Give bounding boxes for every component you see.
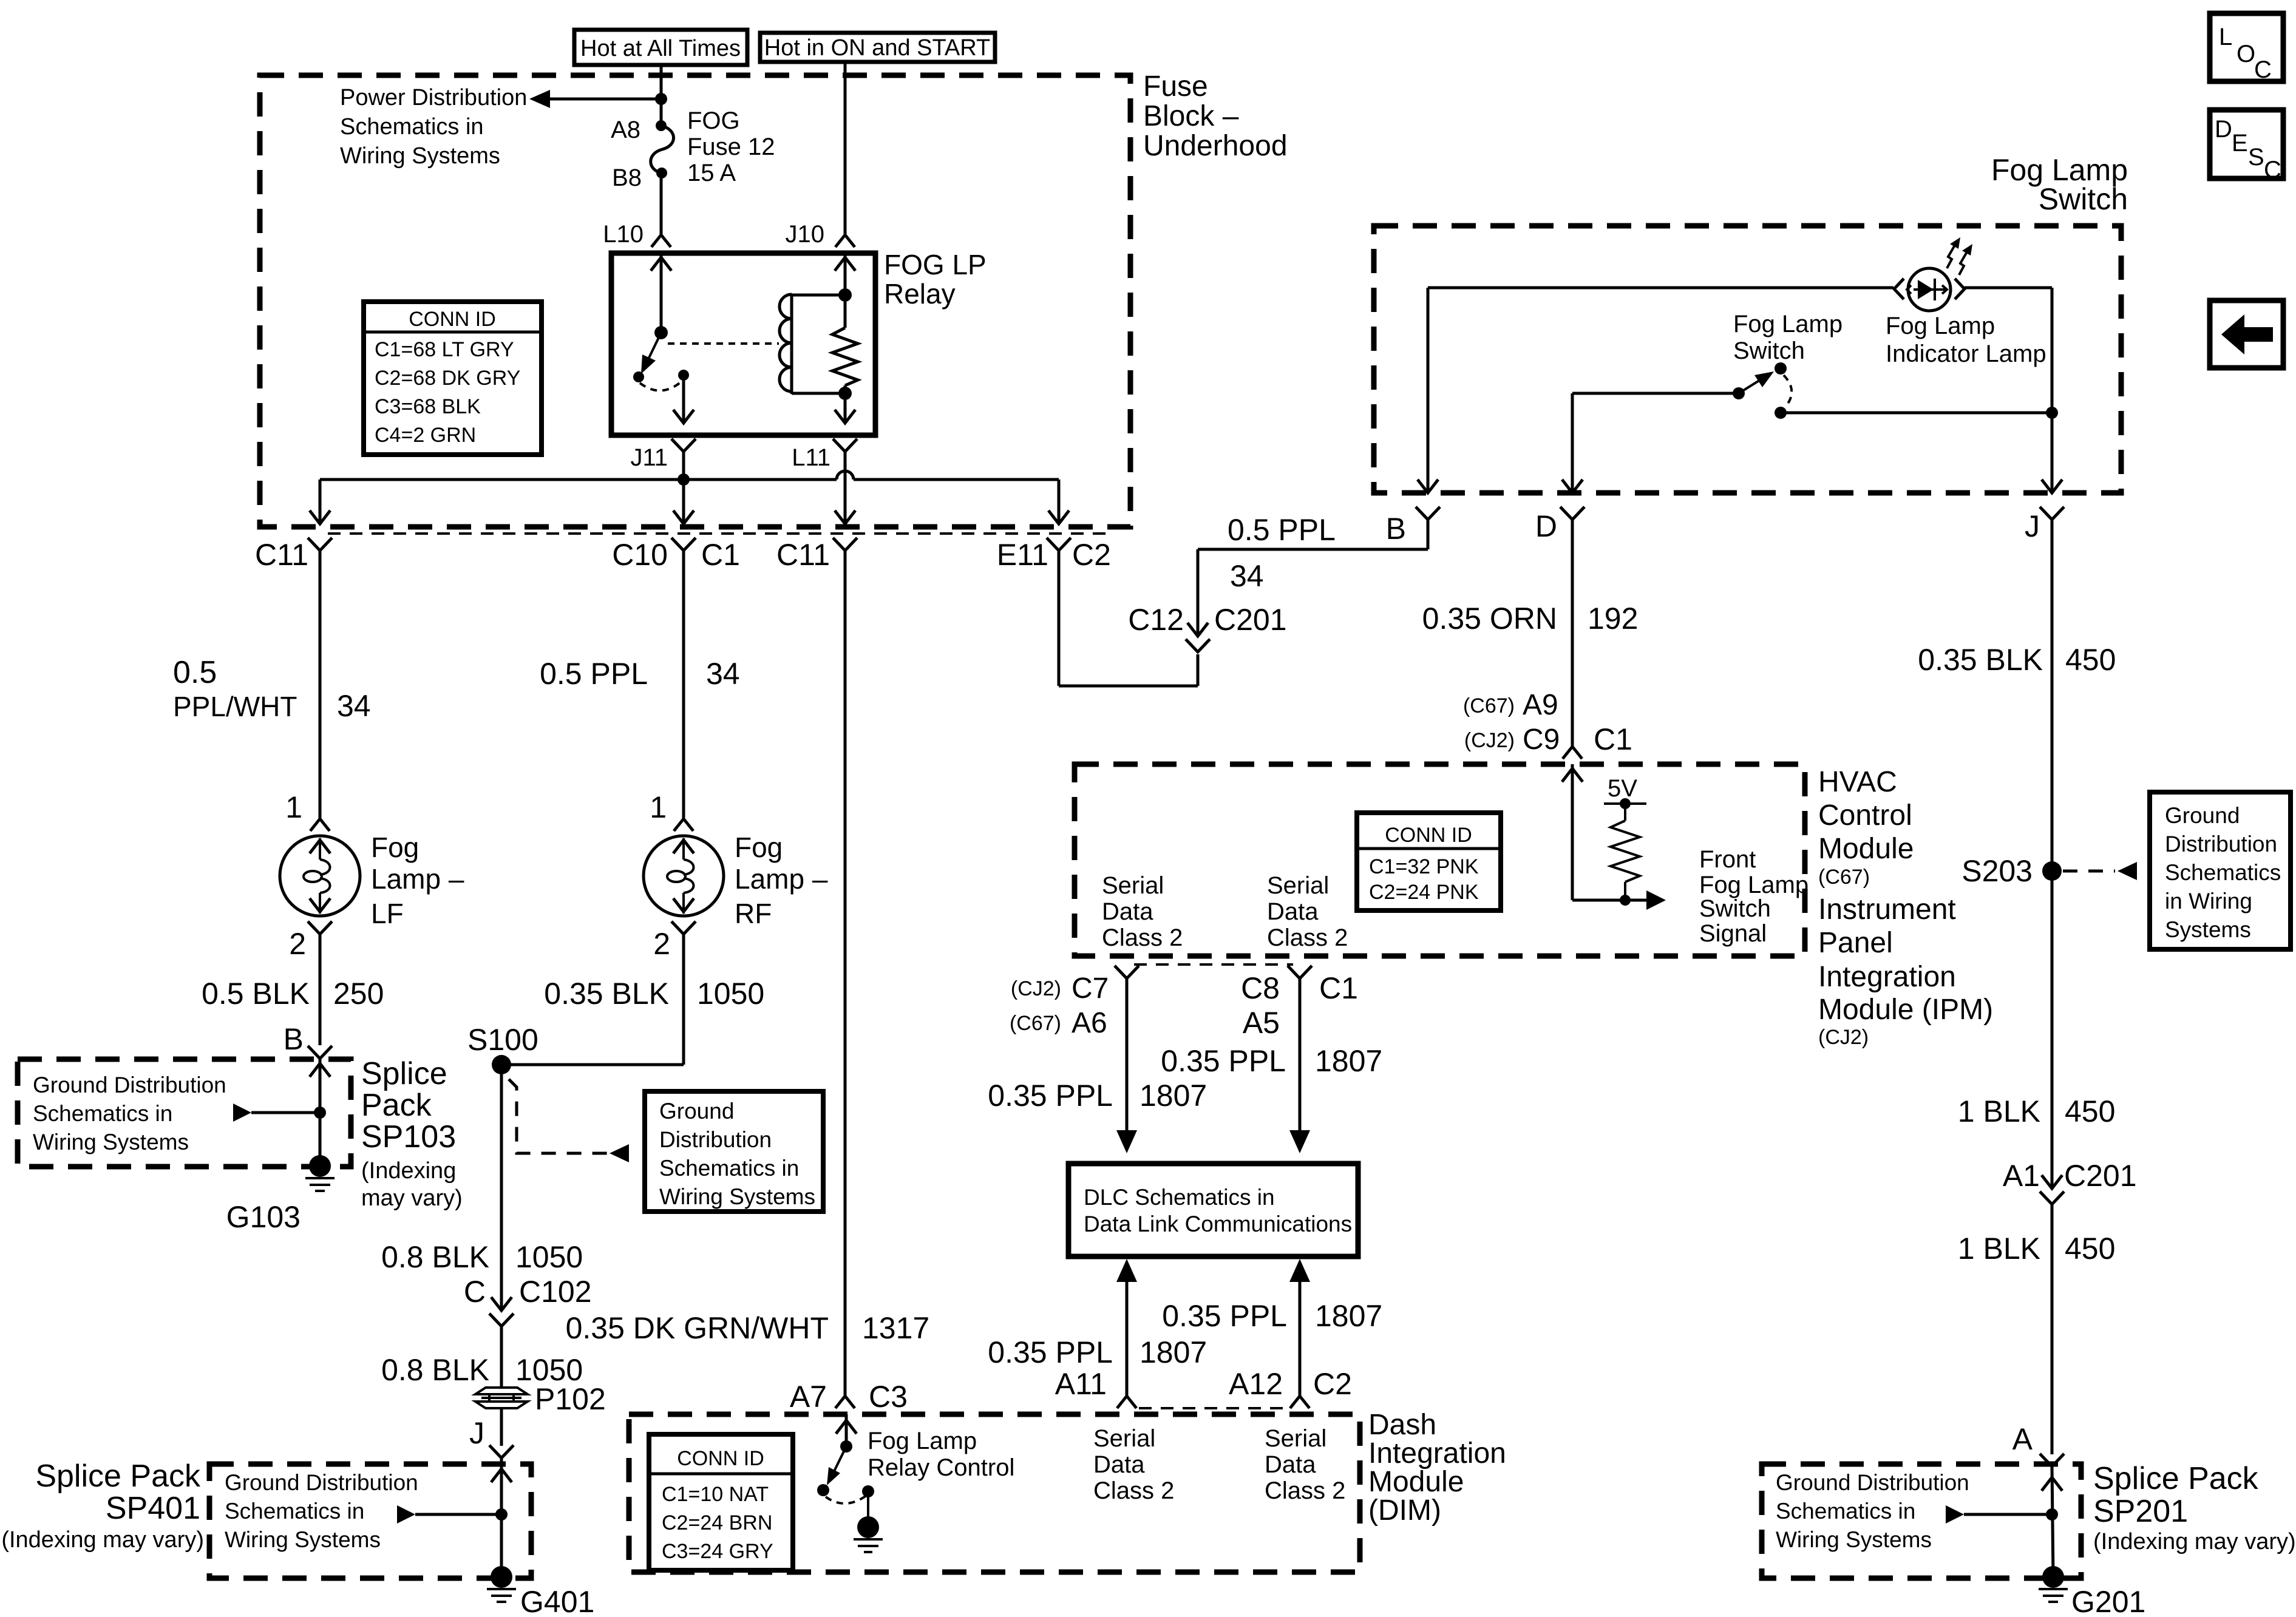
svg-text:C1=10 NAT: C1=10 NAT [662,1483,769,1506]
connector J11 female half [671,439,696,480]
svg-text:C11: C11 [776,538,830,572]
arrows out of DLC box from DIM [1116,1259,1137,1396]
wire 0.35 PPL 1807 (lower left) [988,1335,1207,1369]
svg-text:(C67): (C67) [1010,1012,1061,1035]
output bus wire right with hop over L11 [684,471,1059,524]
svg-text:C3: C3 [869,1380,908,1414]
dash integration module dashed box [629,1414,1360,1572]
connector B female below switch [1416,507,1440,520]
note Ground Distribution Schematics in Wiring Systems (SP201) [1776,1470,1969,1552]
svg-text:C: C [2264,157,2281,183]
junction node SP201 [2046,1508,2058,1520]
svg-text:1807: 1807 [1140,1079,1207,1113]
wire 0.5 BLK 250 LF ground [202,947,384,1045]
fog lamp switch dashed box [1374,226,2121,493]
svg-text:(CJ2): (CJ2) [1818,1026,1869,1049]
svg-text:1807: 1807 [1315,1299,1382,1333]
pin label A at SP201 [2012,1422,2033,1456]
svg-text:L: L [2219,24,2232,50]
svg-text:C1: C1 [701,538,740,572]
pin 1 label LF [285,790,302,824]
label Fog Lamp - RF [735,832,828,929]
svg-text:P102: P102 [535,1382,606,1416]
svg-text:C2: C2 [1072,538,1111,572]
relay N.O. contact [633,371,644,382]
wire 0.35 BLK 450 labels [1918,643,2116,677]
pin labels (C67) A9 / (CJ2) C9 / C1 [1463,689,1558,721]
svg-text:0.35 PPL: 0.35 PPL [988,1079,1113,1113]
svg-text:Serial: Serial [1265,1425,1326,1452]
svg-text:C12: C12 [1128,603,1184,637]
DIM internal ground [854,1491,883,1552]
svg-text:Splice Pack: Splice Pack [2093,1461,2259,1496]
connector C10 female [671,538,696,566]
svg-text:Serial: Serial [1093,1425,1155,1452]
arrow to power distribution schematics [529,90,661,108]
svg-text:450: 450 [2065,1094,2115,1128]
svg-text:Data: Data [1265,1451,1316,1478]
svg-text:C4=2 GRN: C4=2 GRN [375,424,476,447]
svg-text:Data: Data [1267,898,1319,925]
wire from E11 down and right to C201 [1059,566,1198,686]
svg-text:Front: Front [1699,846,1756,873]
switch throw dashed arc [1784,375,1792,407]
svg-text:C1=68 LT GRY: C1=68 LT GRY [375,338,514,361]
svg-text:192: 192 [1588,602,1638,636]
svg-text:(Indexing: (Indexing [361,1158,456,1184]
svg-text:0.35 BLK: 0.35 BLK [1918,643,2043,677]
svg-text:Ground: Ground [2165,803,2240,828]
HVAC internal signal wire [1562,764,1648,900]
svg-text:34: 34 [706,657,740,691]
svg-text:C2=24 BRN: C2=24 BRN [662,1511,772,1534]
svg-text:5V: 5V [1608,775,1637,802]
svg-text:1807: 1807 [1140,1335,1207,1369]
connector J female at SP401 [489,1445,514,1577]
wire 0.35 ORN 192 labels [1422,602,1639,636]
svg-text:C3=24 GRY: C3=24 GRY [662,1540,773,1563]
label Fog Lamp Relay Control [868,1428,1014,1481]
svg-text:A8: A8 [611,117,640,143]
svg-text:DLC Schematics in: DLC Schematics in [1084,1185,1275,1210]
svg-text:0.35 PPL: 0.35 PPL [988,1335,1113,1369]
inline connector C102 pin C [489,1297,514,1388]
switch D leg wire [1572,393,1739,493]
svg-text:Schematics in: Schematics in [1776,1499,1915,1524]
svg-text:Wiring Systems: Wiring Systems [33,1130,189,1154]
ground distribution schematics reference box (S100) [645,1091,823,1212]
switch pivot node [1733,387,1745,399]
svg-text:1050: 1050 [697,977,764,1011]
splice pack SP201 dashed box [1762,1464,2081,1578]
relay switch output contact [678,370,689,381]
label Splice Pack SP103 (Indexing may vary) [361,1056,463,1211]
svg-text:A1: A1 [2003,1159,2040,1193]
svg-text:A6: A6 [1072,1007,1107,1039]
splice node S100 [492,1055,511,1074]
svg-text:Hot in ON and START: Hot in ON and START [764,35,990,61]
pin label B at SP103 [284,1022,304,1056]
svg-text:0.8 BLK: 0.8 BLK [381,1353,489,1387]
labels C and C102 [464,1275,592,1309]
label Serial Data Class 2 (DIM left) [1093,1425,1174,1504]
CONN ID table for fuse block [364,302,542,455]
svg-text:C201: C201 [2064,1159,2137,1193]
svg-text:0.5 PPL: 0.5 PPL [1228,513,1336,547]
connector A female at SP201 [2040,1454,2064,1577]
relay control driver wire inside DIM [836,1414,857,1446]
connector D female below switch [1560,507,1584,747]
feeder arrow into splice SP103 [233,1103,320,1122]
wire 0.35 PPL 1807 (lower right) [1162,1299,1382,1333]
relay control switch arm [827,1446,846,1485]
svg-text:Splice Pack: Splice Pack [35,1459,201,1494]
svg-text:C2=24 PNK: C2=24 PNK [1369,881,1479,904]
svg-text:(C67): (C67) [1818,866,1870,889]
label HVAC Control Module / IPM [1818,766,1993,1049]
svg-text:Ground: Ground [659,1099,734,1124]
output bus wire left to C11 [320,480,684,524]
svg-text:C8: C8 [1241,971,1280,1005]
svg-text:Power Distribution: Power Distribution [340,85,527,110]
label G401 [520,1585,594,1617]
svg-text:(DIM): (DIM) [1368,1494,1441,1527]
inline connector C201 pin A1 [2040,1175,2064,1454]
svg-text:(CJ2): (CJ2) [1464,729,1515,752]
label S100 [467,1023,538,1057]
svg-text:Ground Distribution: Ground Distribution [225,1470,418,1495]
svg-text:Distribution: Distribution [2165,832,2277,856]
connector B female at SP103 [308,1046,332,1059]
lamp feed wire to indicator [1428,286,1894,290]
svg-text:Block –: Block – [1143,100,1239,132]
relay control right contact [862,1485,874,1497]
svg-text:O: O [2237,41,2255,67]
pin labels C11 C10 C1 C11 E11 C2 [255,538,308,572]
relay switch arm [641,333,661,374]
wire 0.8 BLK 1050 from S100 to C102 [381,1065,583,1310]
svg-text:E: E [2232,130,2248,157]
pin labels (CJ2) C7 (C67) A6 [1011,972,1109,1005]
svg-text:S: S [2248,144,2264,171]
svg-text:1 BLK: 1 BLK [1958,1094,2040,1128]
relay switch output wire to J11 [673,375,694,423]
svg-text:C1=32 PNK: C1=32 PNK [1369,855,1479,878]
svg-text:SP401: SP401 [106,1491,200,1526]
pin labels C8 C1 A5 [1241,971,1358,1005]
svg-text:Fog Lamp: Fog Lamp [1886,313,1995,339]
connector J10 male half [835,235,855,247]
label Fuse Block - Underhood [1143,70,1288,162]
wire 0.8 BLK 1050 from C102 to P102 [381,1353,583,1387]
svg-text:C10: C10 [612,538,668,572]
note Ground Distribution Schematics in Wiring Systems (SP103) [33,1073,226,1154]
svg-text:C7: C7 [1072,972,1109,1005]
pull-up resistor in HVAC [1611,804,1640,906]
svg-text:in Wiring: in Wiring [2165,889,2252,914]
connector body line above DIM thin dashed [1139,1407,1288,1409]
legend box back arrow [2210,300,2283,368]
svg-text:Dash: Dash [1368,1409,1436,1441]
svg-text:Switch: Switch [1699,895,1771,922]
fog lamp indicator lamp LED symbol [1894,237,1972,311]
relay coil [779,294,844,394]
svg-text:1807: 1807 [1315,1044,1382,1078]
relay switch pivot node [654,326,668,339]
svg-text:CONN ID: CONN ID [1385,824,1472,847]
svg-text:S100: S100 [467,1023,538,1057]
switch arm with arrow [1739,371,1774,393]
wire 0.35 PPL 1807 (upper left) [988,1079,1207,1113]
fog lamp RF [644,566,724,947]
svg-text:Integration: Integration [1818,961,1956,993]
connector C1 male into HVAC [1563,747,1582,759]
svg-text:Lamp –: Lamp – [371,863,464,895]
pin label J11 [630,444,668,471]
svg-text:450: 450 [2065,643,2116,677]
svg-text:C11: C11 [255,538,308,572]
svg-text:C102: C102 [519,1275,592,1309]
relay switch common wire from L10 [651,253,671,333]
svg-text:C: C [2254,56,2272,83]
svg-text:(Indexing may vary): (Indexing may vary) [1,1527,204,1553]
svg-text:Data: Data [1102,898,1153,925]
relay control left contact [817,1484,829,1496]
wire 0.5 PPL 34 from C10 to RF lamp [540,657,740,691]
power feed box "Hot at All Times" [574,30,747,65]
svg-text:C2=68 DK GRY: C2=68 DK GRY [375,367,520,390]
connector C11 female (left) [308,538,332,566]
svg-text:Switch: Switch [2039,182,2128,216]
pin label A8 [611,117,640,143]
svg-text:Integration: Integration [1368,1437,1506,1470]
svg-text:Splice: Splice [361,1056,447,1091]
label Splice Pack SP201 (Indexing may vary) [2093,1461,2296,1554]
svg-text:(C67): (C67) [1463,694,1515,717]
label P102 [535,1382,606,1416]
svg-text:250: 250 [333,977,384,1011]
svg-text:0.5 BLK: 0.5 BLK [202,977,310,1011]
relay control pivot node [840,1440,852,1453]
svg-text:Signal: Signal [1699,920,1767,947]
connectors A11 A12 male into DIM [1117,1396,1309,1408]
svg-text:B8: B8 [612,164,642,191]
wire from Hot in ON and START down to J10 [844,62,847,235]
svg-text:Wiring Systems: Wiring Systems [1776,1527,1932,1552]
svg-text:Panel: Panel [1818,927,1893,959]
note Power Distribution Schematics in Wiring Systems [340,85,527,169]
svg-text:0.35 DK GRN/WHT: 0.35 DK GRN/WHT [566,1311,829,1345]
internal signal arrow to Front Fog Lamp Switch Signal [1646,890,1666,910]
svg-text:Fuse: Fuse [1143,70,1208,103]
svg-text:Class 2: Class 2 [1102,924,1183,951]
label G201 [2071,1585,2145,1617]
relay K: FOG LP Relay box [611,253,875,435]
svg-text:Hot at All Times: Hot at All Times [580,36,741,61]
svg-text:Schematics in: Schematics in [225,1499,364,1524]
connector A7/C3 male into DIM [835,1396,855,1408]
svg-text:Module (IPM): Module (IPM) [1818,994,1993,1026]
svg-text:C2: C2 [1313,1367,1352,1401]
svg-text:Control: Control [1818,799,1912,832]
svg-text:HVAC: HVAC [1818,766,1897,798]
svg-text:D: D [1535,509,1557,543]
svg-text:Distribution: Distribution [659,1127,772,1152]
svg-text:G103: G103 [226,1200,301,1234]
pin label J at SP401 [469,1408,501,1450]
svg-text:Schematics in: Schematics in [340,114,484,140]
svg-text:SP103: SP103 [361,1119,456,1154]
pin labels A7 C3 [790,1380,908,1414]
svg-text:C201: C201 [1214,603,1287,637]
pin label D [1535,509,1557,543]
svg-text:Serial: Serial [1267,872,1329,899]
title Fog Lamp Switch [1991,153,2128,216]
label Dash Integration Module (DIM) [1368,1409,1506,1527]
svg-text:A5: A5 [1243,1006,1280,1040]
svg-text:0.35 PPL: 0.35 PPL [1161,1044,1286,1078]
svg-text:FOG: FOG [687,107,740,134]
label G103 [226,1200,301,1234]
svg-text:C: C [464,1275,486,1309]
wire into SP103 with arrow [310,1059,330,1166]
relay throw dashed arc [640,382,681,391]
svg-text:A7: A7 [790,1380,827,1414]
pin label J10 [786,221,825,248]
labels A1 and C201 [2003,1159,2137,1193]
label Serial Data Class 2 (DIM right) [1265,1425,1345,1504]
fog lamp LF [280,566,360,947]
splice pack SP401 dashed box [209,1464,531,1578]
pin label L11 [792,444,830,471]
svg-text:C1: C1 [1594,722,1632,756]
relay control throw dashed arc [826,1496,866,1503]
svg-text:CONN ID: CONN ID [677,1447,764,1470]
svg-text:Fog Lamp: Fog Lamp [1733,311,1843,337]
svg-text:0.5 PPL: 0.5 PPL [540,657,648,691]
labels C12 and C201 [1128,603,1286,637]
svg-text:Systems: Systems [2165,917,2251,942]
svg-text:Class 2: Class 2 [1267,924,1348,951]
svg-text:0.5: 0.5 [173,655,217,690]
wire 0.5 PPL/WHT 34 from C11 to LF lamp [173,655,371,723]
splice pack SP103 dashed box [18,1059,351,1167]
pin label L10 [603,221,644,248]
svg-text:Wiring Systems: Wiring Systems [659,1184,815,1209]
svg-text:Fog Lamp: Fog Lamp [1699,872,1809,898]
label Splice Pack SP401 (Indexing may vary) [1,1459,204,1553]
label Fog Lamp - LF [371,832,464,929]
svg-text:J: J [2025,509,2040,543]
wire from Hot at All Times down to fuse A8 [660,65,663,126]
pin label J [2025,509,2040,543]
label FOG Fuse 12 15 A [687,107,775,186]
svg-text:PPL/WHT: PPL/WHT [173,691,297,722]
wire 0.35 BLK 1050 RF ground [544,947,764,1065]
wire 1 BLK 450 upper [1958,871,2116,1188]
svg-text:J11: J11 [630,444,668,471]
connector C8/C1 female below HVAC [1288,966,1312,1130]
arrows into DLC box [1116,1130,1310,1153]
switch feed wire B leg [1427,288,1430,493]
svg-text:G401: G401 [520,1585,594,1617]
svg-text:may vary): may vary) [361,1185,463,1211]
switch lower contact [1775,407,1787,419]
legend box DESC [2210,110,2283,183]
connector body line below HVAC thin dashed [1134,963,1293,966]
svg-text:CONN ID: CONN ID [409,308,496,331]
label FOG LP Relay [884,249,987,310]
legend box LOC [2210,13,2283,83]
pin 2 label LF [289,927,306,961]
svg-text:Serial: Serial [1102,872,1164,899]
junction node on battery feed [655,93,667,105]
wire lower contact to J leg [1781,412,2052,415]
fuse block underhood dashed box [260,75,1130,527]
svg-text:Schematics in: Schematics in [33,1101,172,1126]
pin label B [1386,512,1406,546]
svg-text:Wiring Systems: Wiring Systems [225,1527,381,1552]
connector body line C1/C2 thin dashed [328,532,1111,535]
HVAC control module dashed box [1075,764,1805,956]
connector L11 female half [833,439,857,524]
svg-text:Ground Distribution: Ground Distribution [1776,1470,1969,1495]
fuse F12 FOG 15A symbol [651,120,674,178]
svg-text:0.8 BLK: 0.8 BLK [381,1240,489,1274]
svg-text:Data: Data [1093,1451,1145,1478]
note Ground Distribution Schematics in Wiring Systems (SP401) [225,1470,418,1552]
svg-text:Fuse 12: Fuse 12 [687,134,775,160]
label Fog Lamp Switch (component) [1733,311,1843,364]
svg-text:Fog Lamp: Fog Lamp [868,1428,977,1454]
svg-text:Underhood: Underhood [1143,130,1288,162]
switch upper contact [1775,362,1787,375]
svg-text:Relay: Relay [884,278,956,310]
svg-text:G201: G201 [2071,1585,2145,1617]
connector E11 female [1047,538,1071,566]
svg-text:0.35 PPL: 0.35 PPL [1162,1299,1287,1333]
svg-text:A12: A12 [1229,1367,1283,1401]
5V supply rail [1604,775,1646,809]
ground G103 [305,1155,335,1191]
ground G401 [487,1566,516,1602]
svg-text:Class 2: Class 2 [1093,1477,1174,1504]
svg-text:Module: Module [1818,833,1914,865]
power feed box "Hot in ON and START" [760,33,995,62]
svg-text:J: J [469,1416,484,1450]
svg-text:C9: C9 [1523,724,1560,756]
svg-text:L11: L11 [792,444,830,471]
svg-text:Pack: Pack [361,1088,432,1123]
dashed reference from S100 to ground distribution note [509,1079,629,1162]
HVAC CONN ID table [1357,813,1501,910]
wire RF ground to splice S100 [501,1063,684,1066]
svg-text:Class 2: Class 2 [1265,1477,1345,1504]
wire fuse B8 to L10 [660,173,663,235]
svg-text:(Indexing may vary): (Indexing may vary) [2093,1529,2296,1554]
svg-text:34: 34 [337,689,371,723]
svg-text:Wiring Systems: Wiring Systems [340,143,500,169]
wire 0.35 PPL 1807 (upper right) [1161,1044,1382,1078]
relay coil link dashed line [668,342,779,345]
svg-text:A11: A11 [1055,1367,1107,1401]
svg-text:B: B [1386,512,1406,546]
svg-text:FOG LP: FOG LP [884,249,987,280]
svg-text:A: A [2012,1422,2033,1456]
dashed reference from S203 to ground distribution note [2063,862,2137,880]
svg-text:2: 2 [653,927,670,961]
svg-text:Fog: Fog [735,832,783,863]
